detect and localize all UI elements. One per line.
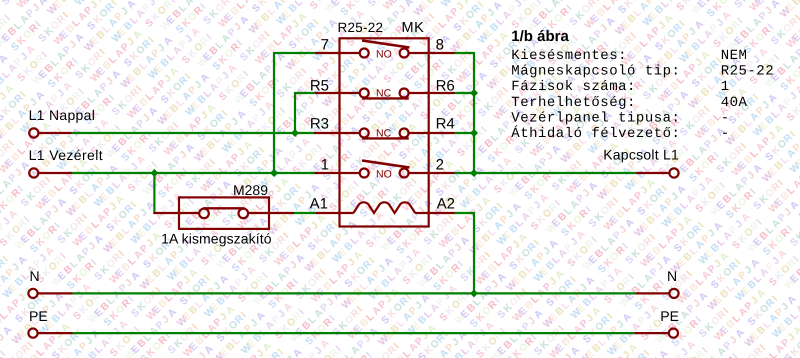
svg-text:2: 2 <box>436 156 444 173</box>
svg-text:NO: NO <box>376 169 392 181</box>
svg-text:R3: R3 <box>310 116 329 133</box>
contact NC row 2 <box>360 89 409 99</box>
terminal PE left <box>28 329 72 338</box>
wire right bus vertical <box>473 52 475 174</box>
wire PE horizontal <box>73 332 635 334</box>
svg-text:R4: R4 <box>436 116 455 133</box>
contact NO row 4 pin lines <box>315 172 455 174</box>
junction right bus / R6 <box>470 89 478 97</box>
breaker M289 left pin wire <box>153 212 199 214</box>
junction L1 Nappal / R5 branch <box>291 129 299 137</box>
wire pin7 branch horizontal <box>273 52 315 54</box>
junction L1 Vezérelt / breaker branch <box>150 169 158 177</box>
wire pin2 to Kapcsolt L1 terminal <box>455 172 636 174</box>
svg-text:A2: A2 <box>437 195 455 212</box>
wire L1 Nappal horizontal <box>72 132 314 134</box>
contact NO row 1 pin lines <box>315 52 455 54</box>
wire L1 Vezérelt horizontal <box>72 172 315 174</box>
svg-text:N: N <box>667 268 677 284</box>
svg-text:M289: M289 <box>233 182 268 198</box>
contact NC row 3 pin lines <box>314 132 455 134</box>
svg-text:NC: NC <box>376 128 392 140</box>
svg-text:R6: R6 <box>436 78 455 95</box>
contact NC row 3 <box>360 129 409 139</box>
svg-text:R25-22: R25-22 <box>721 64 774 80</box>
terminal L1 Nappal <box>29 128 71 137</box>
junction right bus / pin2 <box>470 169 478 177</box>
svg-text:NC: NC <box>376 88 392 100</box>
net N / A2 wires <box>73 212 636 294</box>
wire pin7 branch vertical <box>273 52 275 174</box>
wire R4 horizontal <box>455 132 475 134</box>
wire A1 net <box>294 212 315 214</box>
svg-text:40A: 40A <box>721 95 748 111</box>
svg-text:7: 7 <box>321 37 329 54</box>
svg-text:1: 1 <box>321 156 329 173</box>
contact NO row 1 <box>360 41 410 58</box>
svg-text:PE: PE <box>29 308 48 324</box>
breaker M289 body <box>179 197 269 229</box>
coil A1-A2 pin lines <box>315 212 454 214</box>
terminal N right <box>636 289 679 298</box>
svg-text:Kapcsolt L1: Kapcsolt L1 <box>603 147 679 163</box>
breaker M289 right pin wire <box>248 212 294 214</box>
svg-text:-: - <box>721 126 730 142</box>
svg-text:1/b ábra: 1/b ábra <box>511 28 569 45</box>
net L1 Vezérelt wires <box>72 52 315 214</box>
wire R6 horizontal <box>455 92 475 94</box>
svg-text:Terhelhetőség:: Terhelhetőség: <box>511 95 636 111</box>
terminal N left <box>28 289 72 298</box>
terminal Kapcsolt L1 <box>636 168 679 177</box>
svg-text:L1 Vezérelt: L1 Vezérelt <box>29 147 103 163</box>
svg-text:A1: A1 <box>310 196 328 213</box>
junction N / A2 <box>470 289 478 297</box>
svg-text:-: - <box>721 110 730 126</box>
junction L1 Vezérelt / pin7 branch <box>270 169 278 177</box>
junction right bus / R4 <box>470 129 478 137</box>
net L1 Nappal wires <box>72 92 315 134</box>
svg-text:Vezérlpanel tipusa:: Vezérlpanel tipusa: <box>511 110 680 126</box>
svg-text:Fázisok száma:: Fázisok száma: <box>511 79 636 95</box>
svg-text:Áthidaló félvezető:: Áthidaló félvezető: <box>511 125 680 142</box>
svg-text:NEM: NEM <box>721 48 748 64</box>
svg-text:R25-22: R25-22 <box>338 20 384 35</box>
wire R5 branch horizontal <box>294 92 315 94</box>
svg-text:Mágneskapcsoló tip:: Mágneskapcsoló tip: <box>511 64 680 80</box>
contact NO row 4 <box>360 161 410 178</box>
wire A2 vertical <box>473 212 475 294</box>
svg-text:1: 1 <box>721 79 730 95</box>
svg-text:R5: R5 <box>310 78 329 95</box>
svg-text:MK: MK <box>402 20 425 36</box>
contact NC row 2 pin lines <box>315 92 455 94</box>
svg-text:PE: PE <box>660 308 679 324</box>
wire A2 horizontal <box>455 212 476 214</box>
wire N horizontal <box>73 292 636 294</box>
terminal PE right <box>634 329 678 338</box>
svg-text:8: 8 <box>436 37 444 54</box>
svg-text:1A kismegszakító: 1A kismegszakító <box>161 231 272 247</box>
svg-text:N: N <box>30 268 40 284</box>
wire R5 branch vertical <box>294 92 296 134</box>
svg-text:Kiesésmentes:: Kiesésmentes: <box>511 48 627 64</box>
svg-text:NO: NO <box>376 49 392 61</box>
svg-text:L1 Nappal: L1 Nappal <box>29 107 96 123</box>
contactor MK (R25-22) box <box>340 38 429 226</box>
terminal L1 Vezérelt <box>29 168 71 177</box>
net Kapcsolt L1 wires <box>455 52 636 174</box>
wire pin8 horizontal <box>455 52 476 54</box>
coil A1-A2 <box>353 202 415 213</box>
wire breaker branch vertical <box>153 172 155 214</box>
